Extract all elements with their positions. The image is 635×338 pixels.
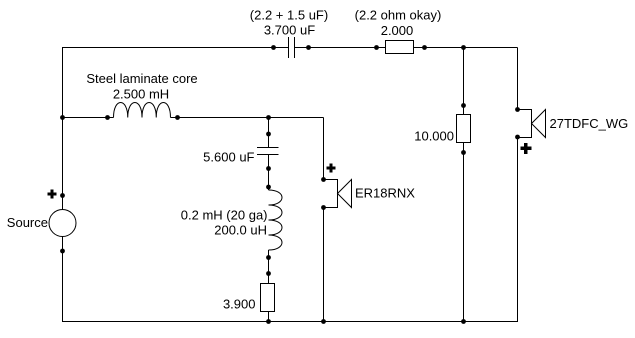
- node R1 right terminal on top wire: [422, 45, 427, 50]
- speaker ER18RNX symbol: [324, 180, 352, 208]
- svg-text:ER18RNX: ER18RNX: [355, 186, 415, 201]
- wire 27TDFC branch vertical lower: [517, 138, 519, 322]
- node 27TDFC_WG negative terminal: [515, 135, 520, 140]
- node R3 bottom terminal: [461, 150, 466, 155]
- wire 10ohm branch vertical upper: [463, 48, 465, 115]
- wire second horizontal right segment: [171, 117, 324, 119]
- svg-text:200.0 uH: 200.0 uH: [214, 223, 267, 238]
- junction left rail to second wire: [60, 115, 65, 120]
- node C2 top terminal: [266, 132, 271, 137]
- wire top horizontal middle segment: [295, 47, 386, 49]
- node L2 top terminal: [266, 185, 271, 190]
- wire 27TDFC branch vertical upper: [517, 48, 519, 110]
- node R2 top terminal: [266, 271, 271, 276]
- junction shunt branch to bottom wire: [266, 319, 271, 324]
- source V1 circle: [49, 210, 76, 237]
- junction ER18RNX branch to bottom wire: [321, 319, 326, 324]
- capacitor C2 5.600 uF plates: [257, 148, 279, 155]
- wire top horizontal right segment: [414, 47, 518, 49]
- inductor L2 200 uH vertical coil: [269, 190, 283, 250]
- node C1 right terminal on top wire: [306, 45, 311, 50]
- junction second wire to shunt branch: [266, 115, 271, 120]
- wire middle branch between cap and inductor: [268, 155, 270, 191]
- wire left vertical lower: [62, 237, 64, 323]
- node C2 bottom terminal: [266, 166, 271, 171]
- wire second horizontal left lead: [62, 117, 114, 119]
- ER18RNX plus polarity mark: [327, 164, 336, 173]
- node source positive terminal: [60, 193, 65, 198]
- wire ER18RNX branch vertical upper: [323, 118, 325, 180]
- wire top horizontal left segment: [62, 47, 289, 49]
- svg-text:Steel laminate core: Steel laminate core: [86, 71, 197, 86]
- resistor R1 2.000 box: [386, 41, 414, 54]
- resistor R3 10.000 box: [457, 115, 471, 143]
- wire bottom horizontal: [62, 321, 518, 323]
- node L1 left terminal: [105, 115, 110, 120]
- node L1 right terminal: [175, 115, 180, 120]
- svg-text:10.000: 10.000: [414, 129, 454, 144]
- source plus polarity mark: [48, 190, 57, 199]
- svg-text:0.2 mH (20 ga): 0.2 mH (20 ga): [181, 208, 268, 223]
- wire middle branch resistor to bottom: [268, 312, 270, 322]
- node ER18RNX positive terminal: [321, 177, 326, 182]
- svg-text:5.600 uF: 5.600 uF: [203, 150, 254, 165]
- svg-text:(2.2 ohm okay): (2.2 ohm okay): [355, 8, 442, 23]
- node ER18RNX negative terminal: [321, 205, 326, 210]
- 27TDFC_WG plus polarity mark: [521, 143, 532, 154]
- junction 10-ohm branch to bottom wire: [461, 319, 466, 324]
- speaker 27TDFC_WG symbol: [518, 110, 546, 138]
- wire ER18RNX branch vertical lower: [323, 208, 325, 322]
- capacitor C1 3.700 uF plates: [289, 37, 295, 58]
- node 27TDFC_WG positive terminal: [515, 107, 520, 112]
- svg-text:3.900: 3.900: [223, 297, 256, 312]
- svg-text:2.000: 2.000: [381, 23, 414, 38]
- inductor L1 2.500 mH: [114, 103, 171, 118]
- node L2 bottom terminal: [266, 255, 271, 260]
- svg-text:(2.2 + 1.5 uF): (2.2 + 1.5 uF): [250, 8, 328, 23]
- node R3 top terminal: [461, 103, 466, 108]
- svg-text:2.500 mH: 2.500 mH: [113, 87, 169, 102]
- wire middle branch vertical x=268 upper: [268, 118, 270, 148]
- wire middle branch between inductor and resistor: [268, 250, 270, 284]
- node source negative terminal: [60, 249, 65, 254]
- wire 10ohm branch vertical lower: [463, 143, 465, 322]
- resistor R2 3.900 box: [261, 284, 275, 312]
- junction top wire to 10-ohm branch: [461, 45, 466, 50]
- svg-text:27TDFC_WG: 27TDFC_WG: [550, 116, 629, 131]
- node C1 left terminal on top wire: [271, 45, 276, 50]
- node R1 left terminal on top wire: [374, 45, 379, 50]
- wire left vertical upper: [62, 47, 64, 210]
- svg-text:3.700 uF: 3.700 uF: [264, 23, 315, 38]
- svg-text:Source: Source: [7, 215, 48, 230]
